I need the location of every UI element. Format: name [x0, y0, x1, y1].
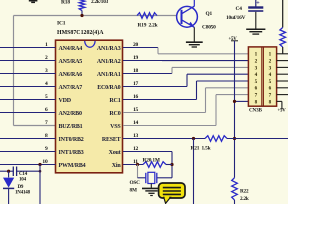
svg-text:2.2k: 2.2k: [240, 196, 249, 202]
svg-text:IC1: IC1: [57, 21, 66, 27]
svg-text:AN1/RA1: AN1/RA1: [97, 72, 121, 78]
svg-text:C8050: C8050: [202, 24, 216, 30]
svg-text:RC1: RC1: [109, 98, 120, 104]
svg-text:INT1/RB3: INT1/RB3: [59, 150, 84, 156]
svg-text:R20 1M: R20 1M: [143, 158, 160, 164]
svg-text:AN7/RA7: AN7/RA7: [59, 85, 83, 91]
svg-text:D9: D9: [18, 185, 24, 190]
svg-text:C4: C4: [236, 6, 243, 12]
svg-text:OSC: OSC: [130, 180, 141, 186]
svg-text:+5V: +5V: [278, 109, 287, 114]
svg-text:Q1: Q1: [206, 11, 213, 17]
svg-text:1N4148: 1N4148: [15, 191, 31, 196]
svg-text:104: 104: [19, 177, 27, 182]
svg-text:AN2/RB0: AN2/RB0: [59, 111, 82, 117]
svg-text:VSS: VSS: [110, 124, 121, 130]
svg-text:AN1/RA3: AN1/RA3: [97, 46, 121, 52]
svg-text:VDD: VDD: [59, 98, 72, 104]
svg-text:7: 7: [45, 120, 48, 126]
svg-text:Xin: Xin: [112, 163, 122, 169]
svg-text:C14: C14: [19, 172, 28, 177]
svg-text:R18: R18: [61, 0, 70, 5]
svg-text:CN3B: CN3B: [249, 108, 262, 114]
svg-text:AN4/RA4: AN4/RA4: [59, 46, 83, 52]
svg-text:2.2k/103: 2.2k/103: [91, 0, 109, 5]
svg-text:RESET: RESET: [102, 137, 121, 143]
svg-text:R19 2.2k: R19 2.2k: [138, 22, 158, 28]
svg-text:AN5/RA5: AN5/RA5: [59, 59, 83, 65]
svg-text:Xout: Xout: [109, 150, 121, 156]
svg-text:10uf/16V: 10uf/16V: [226, 15, 246, 21]
svg-text:R22: R22: [240, 189, 249, 195]
svg-text:PWM/RB4: PWM/RB4: [59, 163, 86, 169]
svg-text:BUZ/RB1: BUZ/RB1: [59, 124, 83, 130]
svg-text:RC0: RC0: [109, 111, 120, 117]
svg-text:R21 1.5k: R21 1.5k: [191, 146, 211, 152]
svg-text:8M: 8M: [130, 188, 137, 194]
svg-text:INT0/RB2: INT0/RB2: [59, 137, 84, 143]
svg-text:EC0/RA0: EC0/RA0: [97, 85, 120, 91]
svg-text:AN1/RA2: AN1/RA2: [97, 59, 121, 65]
svg-text:AN6/RA6: AN6/RA6: [59, 72, 83, 78]
svg-text:HMS87C1202(4)A: HMS87C1202(4)A: [57, 29, 104, 36]
